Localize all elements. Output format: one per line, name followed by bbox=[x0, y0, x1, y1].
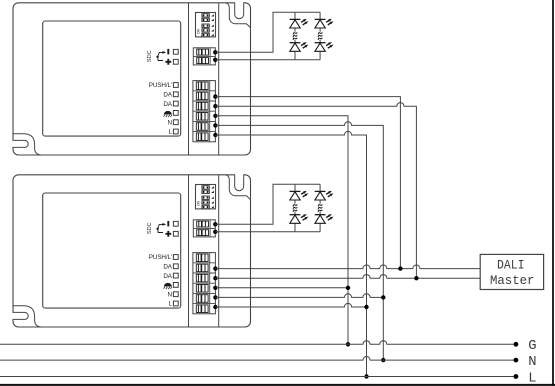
U2 plus terminal mark bbox=[165, 231, 171, 237]
wire U2 LED string 2 link bbox=[319, 184, 321, 232]
svg-text:L: L bbox=[168, 129, 172, 136]
wire U2 DA2 / DALI line 2 bbox=[215, 275, 480, 279]
wire L bus bbox=[0, 376, 516, 378]
U1 SDC terminal square + bbox=[173, 59, 178, 64]
LED driver U1 housing body bbox=[13, 3, 251, 155]
node L bus node bbox=[364, 374, 368, 378]
node N bus end bbox=[514, 358, 519, 363]
wire U2 earth join bbox=[215, 287, 348, 289]
node N bus node bbox=[381, 358, 385, 362]
wire U1 LED minus (top rail feed) bbox=[215, 12, 320, 52]
svg-text:SDC: SDC bbox=[147, 50, 153, 62]
wire U2 LED plus (bottom rail) bbox=[215, 231, 320, 233]
node earth-G node bbox=[346, 342, 350, 346]
U1 SDC terminal square - bbox=[173, 49, 178, 54]
U1 label square N bbox=[173, 120, 178, 125]
page border right bbox=[552, 0, 554, 386]
U1 label square L bbox=[173, 129, 178, 134]
U2 terminal junction dot DA2 bbox=[213, 276, 217, 280]
svg-text:N: N bbox=[167, 291, 172, 298]
U2 SDC terminal junction dot - bbox=[213, 222, 217, 226]
U2 terminal junction dot N bbox=[213, 295, 217, 299]
U2 SDC terminal square + bbox=[173, 231, 178, 236]
U2 terminal junction dot L bbox=[213, 305, 217, 309]
wire U1 DA1 to DALI bus bbox=[215, 97, 400, 269]
LED string 2 continuation marks bbox=[318, 32, 323, 40]
wire U1 LED plus (bottom rail) bbox=[215, 59, 320, 61]
node L bus end bbox=[514, 374, 519, 379]
U1 terminal recess divider left bbox=[188, 3, 190, 155]
U1 label square PUSH/L’ bbox=[173, 83, 178, 88]
U1 terminal recess divider right bbox=[218, 3, 220, 155]
U2 mains/DALI terminal block bbox=[193, 253, 216, 314]
node G bus end bbox=[514, 342, 519, 347]
LED D21b bbox=[290, 214, 309, 223]
U2 SDC terminal junction dot + bbox=[213, 230, 217, 234]
svg-text:L: L bbox=[168, 301, 172, 308]
U1 bottom-left mounting hook cutline bbox=[13, 134, 42, 155]
LED string 2 continuation marks bbox=[318, 204, 323, 212]
node L join node bbox=[364, 305, 368, 309]
LED driver U2 housing body bbox=[13, 175, 251, 327]
LED D12b bbox=[315, 42, 334, 51]
U1 label plate bbox=[43, 21, 181, 136]
svg-text:L: L bbox=[528, 371, 536, 386]
U1 SDC terminal junction dot - bbox=[213, 50, 217, 54]
LED D11a bbox=[290, 19, 309, 28]
U2 terminal junction dot DA1 bbox=[213, 266, 217, 270]
LED D11b bbox=[290, 42, 309, 51]
svg-text:DA: DA bbox=[163, 101, 172, 108]
U2 label square DA bbox=[173, 273, 178, 278]
U1 terminal junction dot L bbox=[213, 133, 217, 137]
U1 bottom-left mounting slot bbox=[12, 140, 28, 147]
U2 minus terminal mark bbox=[167, 221, 169, 227]
U2 label square PUSH/L’ bbox=[173, 255, 178, 260]
U2 terminal recess divider right bbox=[218, 175, 220, 327]
page border bottom bbox=[0, 384, 555, 386]
wire G bus bbox=[0, 341, 516, 345]
U1 terminal junction dot PE bbox=[213, 114, 217, 118]
U1 SDC terminal junction dot + bbox=[213, 58, 217, 62]
wire U2 LED minus (top rail feed) bbox=[215, 184, 320, 224]
U1 label square DA bbox=[173, 101, 178, 106]
svg-text:SDC: SDC bbox=[147, 222, 153, 234]
U1 SDC leader arrow bbox=[158, 52, 164, 60]
U2 label square N bbox=[173, 292, 178, 297]
wire U2 N join bbox=[215, 294, 383, 298]
U2 label square L bbox=[173, 301, 178, 306]
svg-text:DA: DA bbox=[163, 92, 172, 99]
LED D22b bbox=[315, 214, 334, 223]
U2 SDC terminal square - bbox=[173, 221, 178, 226]
svg-text:DALI: DALI bbox=[497, 258, 525, 273]
U1 terminal junction dot DA1 bbox=[213, 94, 217, 98]
U2 top-right mounting hook cutline bbox=[225, 175, 250, 200]
U2 terminal recess divider left bbox=[188, 175, 190, 327]
wire U1 DA2 to DALI bus bbox=[215, 103, 416, 279]
U2 earth label symbol bbox=[164, 283, 172, 287]
svg-text:ON: ON bbox=[197, 28, 201, 34]
U2 SDC leader arrow bbox=[158, 224, 164, 232]
svg-text:ON: ON bbox=[197, 200, 201, 206]
U1 terminal junction dot DA2 bbox=[213, 104, 217, 108]
wire U1 LED string 1 link bbox=[294, 12, 296, 60]
wire U2 L join bbox=[215, 303, 366, 307]
U1 SDC output terminal block bbox=[193, 48, 215, 65]
svg-text:PUSH/L’: PUSH/L’ bbox=[149, 254, 173, 261]
U2 top-right mounting keyhole slot bbox=[235, 174, 244, 191]
U1 plus terminal mark bbox=[165, 59, 171, 65]
U2 bottom-left mounting slot bbox=[12, 312, 28, 319]
U1 earth label symbol bbox=[164, 111, 172, 115]
svg-text:DA: DA bbox=[163, 273, 172, 280]
LED D12a bbox=[315, 19, 334, 28]
node earth join node bbox=[346, 286, 350, 290]
U1 top-right mounting keyhole slot bbox=[235, 2, 244, 19]
svg-text:DA: DA bbox=[163, 264, 172, 271]
U2 SDC output terminal block bbox=[193, 220, 215, 237]
U1 terminal junction dot N bbox=[213, 123, 217, 127]
node N join node bbox=[381, 295, 385, 299]
U2 label square earth bbox=[173, 283, 178, 288]
wire U1 L to L bus bbox=[215, 131, 366, 376]
U1 minus terminal mark bbox=[167, 49, 169, 55]
svg-text:G: G bbox=[528, 339, 536, 354]
LED string 1 continuation marks bbox=[293, 204, 298, 212]
U1 DIP switch block bbox=[196, 13, 216, 37]
U2 DIP switch block bbox=[196, 185, 216, 209]
U1 label square DA bbox=[173, 92, 178, 97]
wire U1 earth to G bus bbox=[215, 116, 348, 344]
node DALI2 node bbox=[414, 276, 418, 280]
node DALI1 node bbox=[398, 266, 402, 270]
U1 mains/DALI terminal block bbox=[193, 81, 216, 142]
wire U2 DA1 / DALI line 1 bbox=[215, 265, 480, 269]
U2 bottom-left mounting hook cutline bbox=[13, 306, 42, 327]
wire U2 LED string 1 link bbox=[294, 184, 296, 232]
U2 label plate bbox=[43, 193, 181, 308]
U1 top-right mounting hook cutline bbox=[225, 3, 250, 28]
wire U1 LED string 2 link bbox=[319, 12, 321, 60]
U1 label square earth bbox=[173, 111, 178, 116]
LED D22a bbox=[315, 191, 334, 200]
wire U1 N to N bus bbox=[215, 122, 383, 360]
svg-text:N: N bbox=[528, 355, 536, 370]
wire N bus bbox=[0, 356, 516, 360]
LED string 1 continuation marks bbox=[293, 32, 298, 40]
U2 terminal junction dot PE bbox=[213, 286, 217, 290]
DALI Master box bbox=[480, 254, 543, 289]
U2 label square DA bbox=[173, 264, 178, 269]
svg-text:Master: Master bbox=[490, 273, 535, 288]
LED D21a bbox=[290, 191, 309, 200]
svg-text:PUSH/L’: PUSH/L’ bbox=[149, 82, 173, 89]
svg-text:N: N bbox=[167, 119, 172, 126]
